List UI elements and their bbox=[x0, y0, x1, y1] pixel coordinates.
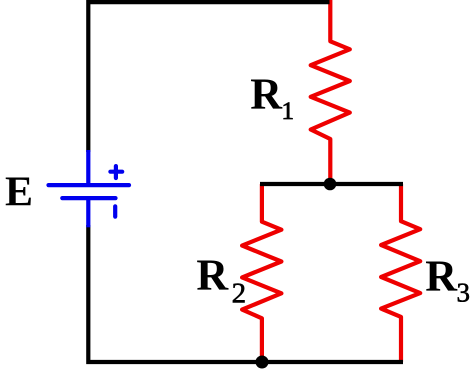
svg-text:1: 1 bbox=[282, 98, 295, 125]
svg-text:E: E bbox=[5, 169, 33, 215]
svg-text:R: R bbox=[250, 69, 283, 118]
svg-text:R: R bbox=[196, 251, 229, 300]
svg-text:3: 3 bbox=[457, 277, 471, 307]
svg-text:R: R bbox=[425, 252, 458, 301]
svg-text:2: 2 bbox=[232, 278, 247, 310]
